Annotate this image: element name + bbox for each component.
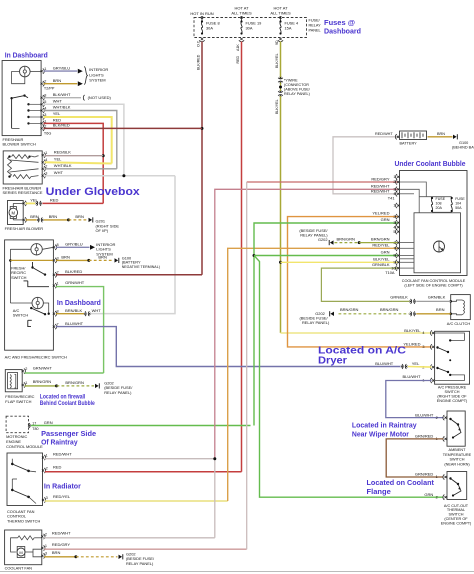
svg-text:T2/PP: T2/PP [44,86,55,90]
A/C switch lamp [32,297,43,308]
coolant fan pin 3 BRN [41,555,43,557]
svg-text:BRN: BRN [98,255,107,260]
svg-text:20A: 20A [436,206,443,210]
fresh air blower box [8,201,24,225]
svg-text:COOLANT FAN: COOLANT FAN [5,566,33,571]
separator line bottom [0,571,474,573]
flap switch coil symbol [8,373,18,389]
svg-text:7: 7 [393,247,395,251]
svg-text:2: 2 [436,416,438,420]
junction BLK/YEL branch to module pin 9 [279,261,282,264]
A/C clutch box [451,295,471,320]
svg-text:YEL: YEL [53,111,61,116]
svg-text:RED/WHT: RED/WHT [375,132,393,136]
svg-text:1: 1 [45,151,47,155]
svg-text:RED/WHT: RED/WHT [53,452,72,457]
svg-text:COOLANT FAN CONTROL MODULE: COOLANT FAN CONTROL MODULE [402,279,466,283]
pressure switch lower bracket contact [435,375,465,381]
svg-text:BRN/GRN: BRN/GRN [340,307,359,312]
junction RED with RED/BLK [102,154,105,157]
pressure switch upper bracket contact [435,333,465,340]
svg-text:NEGATIVE TERMINAL): NEGATIVE TERMINAL) [122,265,160,269]
svg-text:2: 2 [46,466,48,470]
svg-text:RED: RED [236,56,240,64]
svg-text:2: 2 [25,367,27,371]
svg-text:YEL/RED: YEL/RED [372,210,389,215]
module internal wiring [400,182,427,197]
svg-text:CONTROL MODULE: CONTROL MODULE [6,444,43,449]
svg-text:A1K: A1K [236,44,240,51]
svg-text:GRN/BLK: GRN/BLK [428,295,446,300]
svg-text:GRN/WHT: GRN/WHT [65,280,85,285]
svg-text:GRN/BLK: GRN/BLK [390,295,408,300]
svg-text:ALL TIMES: ALL TIMES [270,10,291,15]
svg-text:8: 8 [57,243,59,247]
blower switch pin 5 WHT [41,103,43,105]
svg-text:108: 108 [436,201,442,205]
A/C cut-out thermal switch box [447,472,467,500]
svg-text:8: 8 [44,94,46,98]
svg-text:BRN: BRN [61,255,70,260]
A/C pressure switch box [435,331,470,384]
wire BRN battery to ground [428,136,453,138]
wire RED from fuse 19 down [241,42,243,472]
svg-text:ALL TIMES: ALL TIMES [231,10,252,15]
pressure switch pin 1 BLU/WHT [432,379,434,381]
svg-text:9: 9 [393,261,395,265]
svg-text:GRN/RED: GRN/RED [415,434,434,439]
svg-text:RELAY PANEL): RELAY PANEL) [300,233,328,238]
fresh/recirc flap switch box [5,370,22,392]
junction BRN splice [67,218,70,221]
coolant fan box [5,530,42,565]
connector BRN [38,218,42,223]
svg-text:GRN/WHT: GRN/WHT [33,365,53,370]
svg-text:BRN: BRN [436,307,445,312]
svg-text:RED/GRY: RED/GRY [371,177,389,182]
svg-text:BRN: BRN [437,132,445,136]
svg-text:ENGINE COMPT): ENGINE COMPT) [441,521,472,525]
svg-text:A/C CLUTCH: A/C CLUTCH [447,321,471,326]
wire GRN module pin3 down to Motronic wire [254,223,398,426]
svg-text:3: 3 [46,496,48,500]
blower switch pin 2 BRN [41,83,43,85]
fresh air blower series resistance box [3,151,42,184]
svg-text:M: M [12,210,16,215]
blower switch pin 3 YEL [41,116,43,118]
svg-text:RED/BLK: RED/BLK [54,149,71,154]
blower switch pin 4 WHT/BLK [41,109,43,111]
svg-text:RELAY PANEL): RELAY PANEL) [126,561,154,566]
svg-text:4: 4 [393,225,395,229]
fuse S8 30A [201,20,203,22]
coolant fan control module box [400,171,468,276]
fuse/relay panel (dashed box) [194,18,307,38]
svg-text:BRN/GRN: BRN/GRN [65,380,84,385]
coolant fan control thermo switch box [7,453,43,506]
A/C box pin 7 BLU/WHT [53,326,55,328]
svg-text:(NEAR HORN): (NEAR HORN) [444,462,470,466]
ground G202 beside fuse/relay panel [95,384,99,388]
svg-text:1: 1 [57,282,59,286]
svg-text:YEL: YEL [54,157,62,162]
svg-text:GRN/BLK: GRN/BLK [372,262,390,267]
svg-text:3: 3 [422,345,424,349]
svg-text:GRN: GRN [381,250,390,255]
svg-text:SYSTEM: SYSTEM [89,78,105,83]
svg-text:(BEHIND BATTERY): (BEHIND BATTERY) [452,146,474,150]
svg-text:3: 3 [393,188,395,192]
svg-text:*YWIRE: *YWIRE [284,79,298,83]
brace to interior lights system [84,67,87,85]
wire RED/GRY row to module pin2 [247,181,398,183]
svg-text:A/C CUT-OUT: A/C CUT-OUT [444,504,469,508]
svg-text:15A: 15A [285,26,292,31]
svg-text:BATTERY: BATTERY [400,141,418,145]
fan dropping resistor [18,536,35,540]
junction RED/WHT at thermo switch [213,457,216,460]
svg-text:Located on Coolant: Located on Coolant [367,478,435,487]
svg-text:OF I/P): OF I/P) [96,228,109,233]
dashed BRN/GRN to clutch connector [339,313,410,315]
svg-text:In Dashboard: In Dashboard [57,298,101,307]
svg-text:1: 1 [25,381,27,385]
thermo switch arms [11,459,13,464]
svg-text:BRN/GRN: BRN/GRN [380,307,399,312]
panel output pin 9D [279,38,281,40]
svg-text:2: 2 [393,215,395,219]
A/C box pin 1 GRN/WHT [53,285,55,287]
svg-text:17: 17 [32,421,36,425]
svg-text:1: 1 [436,475,438,479]
wire BLK/YEL turn to A/C pressure switch pin 4 [280,331,282,334]
svg-text:RED/GRY: RED/GRY [52,542,70,547]
Motronic engine control module (dashed box) [6,416,28,433]
junction rail-BRN [9,259,12,262]
svg-text:(CONNECTOR: (CONNECTOR [284,83,309,87]
fresh air blower switch box [2,61,41,136]
svg-text:Of Raintray: Of Raintray [41,438,78,447]
A/C box pin 8 BRN/BLK [53,313,55,315]
svg-text:SWITCH: SWITCH [449,513,464,517]
module fuse 104 50A [451,197,453,199]
ground G100 battery negative terminal [115,258,119,262]
blower pin YEL [23,202,25,204]
svg-text:1: 1 [45,544,47,548]
svg-text:5: 5 [393,230,395,234]
svg-text:(ABOVE FUSE/: (ABOVE FUSE/ [284,88,311,92]
blower switch pin 2 BLK/RED [41,127,43,129]
svg-text:Under Coolant Bubble: Under Coolant Bubble [395,159,466,168]
cut-out pin 1 GRN/RED [445,476,447,478]
svg-text:Dryer: Dryer [318,355,347,366]
svg-text:SWITCH: SWITCH [13,313,29,318]
svg-text:8: 8 [393,254,395,258]
svg-text:BRN: BRN [75,214,84,219]
Motronic pin 17 T80 [29,423,30,428]
blower pin BRN [23,219,25,221]
ground G202 beside fuse/relay panel (coolant fan) [119,555,123,559]
wire RED/GRY trunk down to coolant fan [246,182,248,549]
svg-text:WHT: WHT [53,99,63,104]
svg-text:TEMPERATURE: TEMPERATURE [443,453,472,457]
svg-text:2: 2 [436,495,438,499]
svg-text:BRN/GRN: BRN/GRN [371,236,390,241]
svg-text:YEL: YEL [412,361,420,366]
wire GRN/RED ambient to cut-out switch [386,439,443,477]
svg-text:A/C PRESSURE: A/C PRESSURE [438,386,467,390]
feed stub fuse 19 [241,16,243,21]
panel output pin O.C [201,38,203,40]
svg-text:FUSE: FUSE [455,197,465,201]
thermo switch pin 3 RED/YEL [42,499,44,501]
ambient temperature switch box [447,411,465,446]
svg-text:In Dashboard: In Dashboard [5,51,48,60]
svg-text:BLK/WHT: BLK/WHT [53,92,71,97]
svg-text:BLK/RED: BLK/RED [197,54,201,70]
svg-text:WHT: WHT [54,170,64,175]
wire GRN from Motronic [31,425,251,427]
svg-text:FUSE: FUSE [436,197,446,201]
svg-text:Under Glovebox: Under Glovebox [46,186,140,198]
svg-text:Behind Coolant Bubble: Behind Coolant Bubble [40,400,95,407]
A/C switch arm [30,307,32,309]
svg-text:M: M [19,550,22,555]
svg-text:GRN/RED: GRN/RED [415,472,434,477]
svg-text:BRN: BRN [53,78,62,83]
pressure switch pin 2 YEL [432,366,434,368]
ground G201 right side of I/P [89,218,93,222]
svg-text:30A: 30A [206,26,213,31]
illumination lamp in blower switch [20,66,31,77]
cut-out switch contacts [449,477,451,479]
clutch pin BRN [449,313,452,316]
svg-text:RELAY PANEL): RELAY PANEL) [104,390,132,395]
connector GRN/BLK [411,299,415,304]
svg-text:G100: G100 [459,141,468,145]
svg-text:BLK/YEL: BLK/YEL [275,53,279,68]
svg-text:THERMAL: THERMAL [447,508,465,512]
svg-text:RELAY PANEL): RELAY PANEL) [284,92,310,96]
svg-text:(LEFT SIDE OF ENGINE COMPT): (LEFT SIDE OF ENGINE COMPT) [404,284,463,288]
blower switch pin 1 GRY/BLU [41,70,43,72]
svg-text:FRESH AIR BLOWER: FRESH AIR BLOWER [5,226,44,231]
ambient temp pin 2 BLU/WHT [445,417,447,419]
svg-text:RELAY: RELAY [309,23,322,27]
pressure switch pin 3 YEL/RED [432,346,434,348]
series resistor network [8,157,12,177]
connector BLU/WHT to YEL [402,364,406,369]
coolant fan motor [17,547,25,558]
svg-text:1: 1 [46,453,48,457]
svg-text:SWITCH: SWITCH [450,458,465,462]
wire GRN jog down to A/C cut-out switch [254,256,444,498]
module T10A pins [397,204,399,206]
wire YEL/RED trunk module pin2(T10A) to pressure switch pin3 [288,217,432,347]
flap switch pin 2 GRN/WHT [22,370,24,372]
wire RED/YEL trunk thermo pin3 to module pin7 [228,248,398,501]
interior rail [9,249,11,303]
module inner relay box [414,213,461,273]
Y-wire connector above fuse/relay panel [278,78,283,82]
svg-text:T41: T41 [388,196,395,201]
module internal pin stubs [400,242,415,244]
svg-text:BRN/BLK: BRN/BLK [65,308,82,313]
svg-text:GRN: GRN [424,492,433,497]
svg-text:GRY/BLU: GRY/BLU [53,65,71,70]
wire RED/WHT trunk thermo to coolant fan [214,459,216,538]
svg-text:1: 1 [393,175,395,179]
svg-text:Fuses @: Fuses @ [324,18,355,27]
svg-text:Dashboard: Dashboard [324,27,361,36]
svg-text:Near Wiper Motor: Near Wiper Motor [352,429,409,438]
svg-text:104: 104 [455,201,461,205]
svg-text:9D: 9D [275,40,279,45]
svg-text:RED: RED [50,198,59,203]
A/C box pin 3 BRN [53,259,55,261]
junction BRN/GRN splice [55,384,58,387]
junction BRN splice to G100 [87,259,90,262]
thermo switch pin 1 RED/WHT [42,456,44,458]
fresh air blower motor [10,207,16,219]
pressure switch upper arm [436,346,438,348]
svg-text:(RIGHT SIDE OF: (RIGHT SIDE OF [437,395,467,399]
svg-text:BLU/WHT: BLU/WHT [65,321,84,326]
svg-text:BLK/RED: BLK/RED [53,123,70,128]
pressure switch pin 4 BLK/YEL [432,332,434,334]
ambient temp pin 1 GRN/RED [445,438,447,440]
A/C box pin 8 GRY/BLU [53,246,55,248]
svg-text:4: 4 [422,331,424,335]
svg-text:8: 8 [57,310,59,314]
thermo switch pin 2 RED [42,469,44,471]
junction GRN at module pin8 row [253,254,256,257]
svg-text:RED/WHT: RED/WHT [52,531,71,536]
feed stub fuse 4 [280,16,282,21]
svg-text:A/C AND FRESH/RECIRC SWITCH: A/C AND FRESH/RECIRC SWITCH [5,354,67,359]
svg-text:Located in Raintray: Located in Raintray [352,421,417,430]
svg-text:BLOWER SWITCH: BLOWER SWITCH [3,142,36,147]
blower switch pin 8 BLK/WHT (not used) [41,97,43,99]
svg-text:BLU/WHT: BLU/WHT [415,412,434,417]
svg-text:RELAY PANEL): RELAY PANEL) [302,320,330,325]
wire WHT down to A/C switch connector [90,176,176,314]
svg-text:WHT/BLK: WHT/BLK [54,163,72,168]
junction BLK/RED to blower switch [201,127,204,130]
svg-text:BRN: BRN [52,550,61,555]
flap switch pin 1 BRN/GRN [22,384,24,386]
wire GRN/BLK module pin10 to A/C clutch [321,268,409,301]
wire BLU/WHT pressure pin1 to ambient switch [386,381,444,418]
recirc illumination lamp [31,244,42,255]
svg-text:ENGINE COMPT): ENGINE COMPT) [437,399,468,403]
series resistance pin 1 RED/BLK [42,154,44,156]
connector YEL to RED [37,201,41,206]
fuse S19 30A [240,20,242,22]
svg-text:GRY/BLU: GRY/BLU [65,242,83,247]
cut-out pin 2 GRN [445,496,447,498]
svg-text:(CENTER OF: (CENTER OF [444,517,468,521]
ground G100 behind battery [453,135,457,139]
svg-text:SWITCH: SWITCH [11,275,27,280]
svg-text:BRN/GRN: BRN/GRN [33,379,52,384]
svg-text:BRN/GRN: BRN/GRN [337,236,356,241]
dashed BRN to ground [69,219,88,221]
svg-text:PANEL: PANEL [309,28,321,32]
blower switch pin 1 RED [41,122,43,124]
svg-text:O.C: O.C [196,40,200,47]
svg-text:In Radiator: In Radiator [44,482,81,491]
svg-text:RED/YEL: RED/YEL [53,494,71,499]
svg-text:2: 2 [45,532,47,536]
A/C clutch coil [451,300,462,301]
svg-text:2: 2 [393,180,395,184]
svg-text:30A: 30A [246,26,253,31]
ambient temp switch contacts [449,418,451,420]
wire RED/WHT trunk module pin3 to thermo switch [215,189,398,458]
coolant fan pin 1 RED/GRY [41,547,43,549]
svg-text:AMBIENT: AMBIENT [449,448,467,452]
svg-text:BLU/WHT: BLU/WHT [403,374,422,379]
svg-text:50A: 50A [455,206,462,210]
svg-text:3: 3 [393,221,395,225]
series resistance pin 2 WHT/BLK [42,168,44,170]
series resistance pin 4 YEL [42,161,44,163]
connector BRN/GRN to BRN [411,311,415,316]
battery [400,131,427,140]
module fan relay symbol [434,241,445,252]
A/C and fresh/recirc switch box [5,240,54,350]
A/C box pin 2 BLK/RED [53,274,55,276]
panel output pin A1K [240,38,242,40]
wire BLK/YEL below Y-connector [280,96,282,332]
svg-text:RED/WHT: RED/WHT [371,189,390,194]
feed stub fuse 8 [201,16,203,21]
svg-text:BLK/YEL: BLK/YEL [275,99,279,114]
svg-text:3: 3 [45,552,47,556]
svg-text:T80: T80 [32,427,38,431]
svg-text:GRN: GRN [44,420,53,425]
svg-text:T10A: T10A [385,270,395,275]
ground G202 for clutch [330,312,334,316]
svg-text:Flange: Flange [367,487,391,496]
junction BRN splice coolant fan [74,555,77,558]
svg-text:HOT IN RUN: HOT IN RUN [190,11,213,16]
module T41 pins [397,176,399,178]
svg-text:SWITCH: SWITCH [445,390,460,394]
svg-text:FUSE/: FUSE/ [309,18,321,22]
module fuse 108 20A [431,197,433,199]
svg-text:THERMO SWITCH: THERMO SWITCH [7,518,40,523]
svg-text:2: 2 [45,165,47,169]
pressure switch lower arm [436,367,438,369]
svg-text:T6G: T6G [44,132,51,136]
module pin 6 BRN/GRN ground [330,240,334,244]
svg-text:BRN: BRN [49,214,58,219]
svg-text:BLK/YEL: BLK/YEL [373,256,390,261]
wire BLK/YEL from fuse 4 down to Y-connector [280,42,282,79]
svg-text:WHT/BLK: WHT/BLK [53,105,71,110]
coolant fan pin 2 RED/WHT [41,535,43,537]
svg-text:BLU/WHT: BLU/WHT [375,361,394,366]
svg-text:3: 3 [45,172,47,176]
connector BRN/BLK to WHT [85,311,89,316]
svg-text:BRN: BRN [30,214,39,219]
svg-text:G202: G202 [318,237,328,242]
svg-text:SERIES RESISTANCE: SERIES RESISTANCE [3,190,43,195]
wire BLK/YEL branch to module pin 9 [281,261,398,263]
svg-text:BLK/RED: BLK/RED [65,269,82,274]
